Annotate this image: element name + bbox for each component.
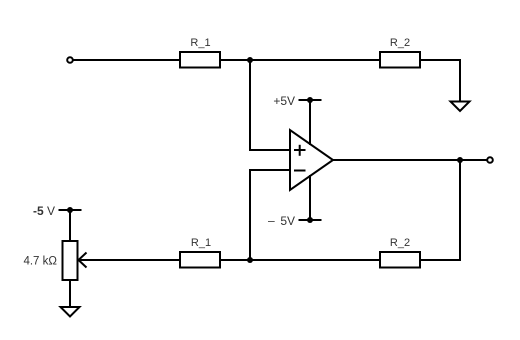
svg-text:R_1: R_1: [191, 237, 211, 249]
wire output to R_2 (feedback): [421, 160, 461, 260]
wire R_1 to potentiometer wiper: [80, 259, 180, 261]
junction dot output: [457, 157, 463, 163]
wire R_2 to node B (bottom): [250, 259, 380, 261]
wire potentiometer bottom to ground: [69, 280, 71, 307]
junction dot -5V (pot): [67, 207, 73, 213]
wire R_2 to ground (top right): [421, 60, 461, 101]
svg-text:R_1: R_1: [190, 37, 210, 49]
wiper arrow: [79, 253, 87, 268]
svg-text:+5V: +5V: [273, 94, 295, 108]
junction dot -5V: [307, 217, 313, 223]
wire node A to op-amp + input: [250, 60, 290, 150]
op-amp U1: [290, 130, 333, 190]
wire -5V to potentiometer top: [69, 210, 71, 241]
potentiometer 4.7 kOhm body: [23, 241, 77, 280]
+5V supply label: [273, 94, 295, 108]
wire op-amp output: [333, 159, 487, 161]
resistor R_1 (bottom): [180, 237, 220, 268]
svg-text:–: –: [268, 213, 275, 227]
resistor R_2 (top): [380, 37, 420, 68]
svg-text:R_2: R_2: [390, 37, 410, 49]
-5 V supply label (pot): [33, 204, 55, 218]
junction dot +5V: [307, 97, 313, 103]
terminal IN (open circle): [67, 57, 73, 63]
-5V supply label (op-amp): [268, 213, 295, 228]
svg-text:4.7 kΩ: 4.7 kΩ: [23, 256, 57, 268]
ground (bottom left): [61, 307, 80, 317]
wire -5V stub: [299, 219, 322, 221]
wire R_1 to R_2 (top): [221, 59, 380, 61]
wire R_1 to node B (bottom): [221, 259, 251, 261]
ground (top right): [451, 102, 470, 112]
wire +5V to op-amp V+ pin: [309, 100, 311, 145]
svg-text:R_2: R_2: [390, 237, 410, 249]
node A junction dot (top): [247, 57, 253, 63]
wire +5V stub: [299, 99, 322, 101]
svg-text:5V: 5V: [280, 214, 295, 228]
resistor R_1 (top): [180, 37, 220, 68]
node B junction dot (bottom): [247, 257, 253, 263]
wire IN to R_1: [74, 59, 180, 61]
wire node B to op-amp - input: [250, 170, 290, 260]
svg-text:-5 V: -5 V: [33, 204, 55, 218]
wire op-amp V- pin to -5V: [309, 175, 311, 220]
terminal OUT (open circle): [487, 157, 493, 163]
wire -5V stub (pot): [59, 209, 82, 211]
resistor R_2 (bottom, feedback): [380, 237, 420, 268]
